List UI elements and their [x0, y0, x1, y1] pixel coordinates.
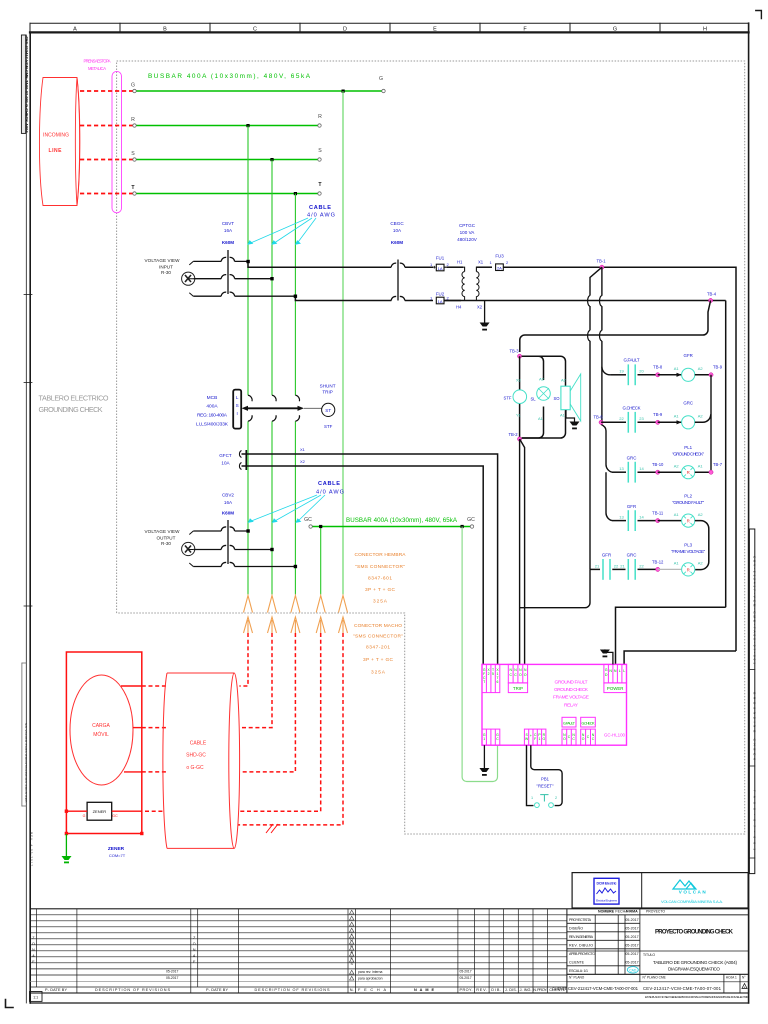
- wire TB-2 to relay trip B: [520, 439, 525, 664]
- svg-text:ESTE PLANO NO SE PUEDE REPRODU: ESTE PLANO NO SE PUEDE REPRODUCIR SIN AU…: [645, 995, 750, 999]
- hop marks rail drop: [600, 296, 602, 341]
- svg-text:G: G: [131, 83, 135, 89]
- svg-text:RELAY: RELAY: [564, 702, 579, 708]
- svg-text:VOLTAGE VIEW: VOLTAGE VIEW: [145, 529, 181, 534]
- svg-text:"SMS CONNECTOR": "SMS CONNECTOR": [355, 564, 405, 570]
- transformer CPTGC label: [457, 223, 478, 242]
- svg-text:PROYECTO GROUNDING CHECK: PROYECTO GROUNDING CHECK: [655, 930, 734, 936]
- svg-text:8347-601: 8347-601: [368, 576, 392, 582]
- svg-text:HOJA 1: HOJA 1: [726, 976, 737, 980]
- svg-text:13: 13: [619, 466, 624, 471]
- svg-text:CABLE: CABLE: [318, 481, 340, 487]
- svg-text:TABLERO DE GROUNDING CHECK (A0: TABLERO DE GROUNDING CHECK (A004): [653, 960, 737, 965]
- svg-text:16A: 16A: [224, 228, 233, 233]
- svg-text:A2: A2: [698, 512, 704, 517]
- svg-text:PL1: PL1: [684, 445, 692, 450]
- label PRENSAESTOPA METALICA: [84, 59, 111, 72]
- svg-text:APRB. PROYECTO: APRB. PROYECTO: [569, 952, 595, 956]
- bottom reset terminal group: [524, 729, 546, 745]
- incoming line cylinder: [39, 78, 79, 206]
- svg-text:05-2017: 05-2017: [460, 976, 472, 980]
- svg-text:L: L: [236, 395, 239, 400]
- svg-text:ZENER: ZENER: [93, 809, 107, 814]
- svg-text:D: D: [343, 27, 347, 33]
- svg-text:05-2017: 05-2017: [625, 961, 638, 965]
- svg-text:CONECTOR MACHO: CONECTOR MACHO: [354, 623, 402, 629]
- revision table: [30, 909, 748, 993]
- svg-text:GC: GC: [467, 517, 475, 523]
- TB-9 terminal right: [709, 373, 713, 377]
- svg-text:4/0 AWG: 4/0 AWG: [307, 213, 335, 219]
- rung3 GRC contact: [612, 456, 656, 483]
- MCB LSI trip unit: [233, 390, 241, 429]
- POWER terminal group: [604, 664, 627, 692]
- svg-text:H: H: [703, 27, 707, 33]
- svg-text:A2: A2: [698, 414, 704, 419]
- title block dates: [625, 918, 638, 965]
- left lower bracket with vertical text: [22, 663, 34, 866]
- wire TB-4 drop right: [725, 301, 727, 608]
- SL coil wire loop: [522, 356, 544, 438]
- svg-text:GROUNDING CHECK: GROUNDING CHECK: [39, 405, 103, 414]
- svg-text:O: O: [519, 673, 522, 677]
- TB-10 terminal: [656, 470, 660, 474]
- svg-text:GROUND FAULT: GROUND FAULT: [555, 680, 588, 686]
- svg-text:MCB: MCB: [207, 395, 218, 401]
- svg-text:CEV-212417-VCM-CME-TA00-07-001: CEV-212417-VCM-CME-TA00-07-001: [643, 986, 722, 991]
- zone letters: [73, 27, 707, 33]
- svg-text:L: L: [623, 669, 625, 673]
- svg-text:GC: GC: [304, 517, 312, 523]
- svg-text:GFR: GFR: [627, 504, 636, 509]
- CBGC 2P breaker: [391, 260, 405, 301]
- svg-text:22: 22: [639, 564, 644, 569]
- GFCT wire X1: [242, 454, 498, 664]
- svg-text:A1: A1: [698, 464, 704, 469]
- svg-text:05-2017: 05-2017: [625, 952, 638, 956]
- svg-text:GRC: GRC: [627, 553, 637, 558]
- TB-12 terminal: [656, 567, 660, 571]
- svg-text:O: O: [563, 737, 566, 741]
- svg-text:B: B: [163, 27, 167, 33]
- pilot light PL1 GROUND CHECK: [658, 445, 711, 479]
- svg-text:A1: A1: [674, 512, 680, 517]
- voltage view output meter: [182, 542, 195, 555]
- svg-text:TB-3: TB-3: [509, 349, 519, 354]
- svg-text:A1: A1: [674, 561, 680, 566]
- green ground at carga: [62, 834, 72, 863]
- svg-text:GROUNDING CHECK: GROUNDING CHECK: [752, 692, 756, 760]
- svg-text:05-2017: 05-2017: [166, 976, 179, 980]
- svg-text:16A: 16A: [224, 500, 233, 505]
- carga movil enclosure: [66, 652, 141, 834]
- svg-text:R: R: [318, 114, 322, 120]
- top-right corner crop mark: [756, 11, 762, 19]
- svg-text:para aprobacion: para aprobacion: [358, 977, 383, 981]
- TB-1 terminal: [596, 259, 606, 270]
- svg-text:8347-201: 8347-201: [366, 645, 390, 651]
- svg-text:REV. DIBUJO: REV. DIBUJO: [569, 944, 593, 948]
- red dashed drop T: [240, 633, 296, 772]
- zener box: [83, 802, 118, 820]
- label CARGA MOVIL: [92, 723, 110, 738]
- CBV2 breaker label: [222, 493, 235, 516]
- svg-text:23: 23: [639, 416, 644, 421]
- svg-text:G: G: [605, 668, 608, 672]
- svg-text:SL: SL: [530, 397, 536, 402]
- top-left terminal group: [482, 664, 500, 692]
- left vertical text strip: [21, 35, 28, 133]
- rung5 wire from rung5 junction: [590, 568, 600, 570]
- vertical feeder G: [342, 91, 344, 595]
- title block header: [598, 910, 638, 914]
- svg-text:P- DATE BY: P- DATE BY: [206, 988, 228, 992]
- svg-text:DESCRIPTION OF REVISIONS: DESCRIPTION OF REVISIONS: [255, 988, 330, 992]
- svg-text:Electrical Engineers: Electrical Engineers: [596, 899, 618, 903]
- svg-text:05-2017: 05-2017: [625, 918, 638, 922]
- TB-3 terminal: [518, 354, 522, 358]
- svg-text:K60M: K60M: [222, 240, 234, 245]
- svg-text:STF: STF: [324, 424, 333, 429]
- svg-text:05-2017: 05-2017: [625, 944, 638, 948]
- voltage view input meter label: [145, 258, 181, 275]
- label INCOMING LINE: [43, 133, 69, 155]
- left border ticks: [24, 295, 32, 607]
- svg-text:21: 21: [620, 564, 625, 569]
- wire X2 secondary to TB-4: [444, 300, 726, 302]
- fuse FU3: [490, 254, 510, 271]
- svg-text:A1: A1: [538, 416, 544, 421]
- svg-text:FRAME VOLTAGE: FRAME VOLTAGE: [553, 695, 589, 701]
- load phase stubs: [121, 686, 142, 772]
- svg-text:GRC: GRC: [683, 401, 693, 406]
- TB-4 terminal: [707, 292, 717, 303]
- logo row box: [572, 873, 748, 908]
- revision zone letters col1: [32, 936, 35, 964]
- svg-text:o G-GC: o G-GC: [186, 765, 204, 771]
- wire CBGC to FU2: [405, 300, 433, 302]
- ground at X2: [480, 301, 490, 331]
- svg-text:H4: H4: [456, 305, 462, 310]
- relay enclosure GC-HL100: [482, 664, 627, 745]
- svg-text:TB-10: TB-10: [652, 462, 664, 467]
- wire right drop to relay POWER L: [624, 651, 736, 664]
- svg-text:3P + T + GC: 3P + T + GC: [365, 587, 396, 593]
- TB-2 terminal: [518, 437, 522, 441]
- incoming red dashed feeders: [80, 91, 133, 194]
- svg-text:400A: 400A: [206, 404, 218, 410]
- svg-text:K60M: K60M: [222, 511, 234, 516]
- CBV2 3P breaker: [188, 520, 295, 567]
- svg-text:TABLERO ELECTRICO: TABLERO ELECTRICO: [39, 394, 109, 403]
- svg-text:OUTPUT: OUTPUT: [157, 536, 176, 541]
- rung5 GFR contact: [595, 553, 626, 580]
- svg-text:ESCALA: 1/1: ESCALA: 1/1: [569, 969, 588, 973]
- voltage view input meter: [182, 272, 195, 285]
- svg-text:para rev. interna: para rev. interna: [358, 970, 383, 974]
- svg-text:LI,LS/400/J33K: LI,LS/400/J33K: [196, 422, 229, 428]
- svg-text:INCOMING: INCOMING: [43, 133, 69, 139]
- svg-text:NO VALIDO PARA CONSTRUCCION SO: NO VALIDO PARA CONSTRUCCION SOLO REF.: [24, 723, 28, 803]
- red dashed drop GC to zener: [239, 633, 321, 811]
- svg-text:20: 20: [639, 369, 644, 374]
- shunt trip ST: [320, 384, 336, 430]
- svg-text:CLIENTE: CLIENTE: [569, 961, 585, 965]
- svg-text:PROYECTISTA: PROYECTISTA: [569, 918, 592, 922]
- svg-text:PRENSAESTOPA: PRENSAESTOPA: [84, 59, 111, 64]
- svg-text:CEV-212417-VCM-CME-TA00-07-001: CEV-212417-VCM-CME-TA00-07-001: [568, 986, 639, 991]
- GFCT label: [219, 453, 232, 466]
- svg-text:1: 1: [539, 737, 541, 741]
- svg-text:COM=7T: COM=7T: [109, 853, 126, 858]
- svg-text:G: G: [83, 814, 86, 818]
- CBV2 junction dots: [246, 529, 249, 532]
- svg-text:S: S: [318, 148, 322, 154]
- wire R phase to CBGC: [248, 261, 391, 267]
- zener wires: [66, 810, 87, 812]
- hop marks left drop: [588, 296, 590, 341]
- svg-text:X1: X1: [300, 447, 306, 452]
- svg-text:PL3: PL3: [684, 543, 692, 548]
- wire TB-1 left drop to rung5: [590, 267, 602, 569]
- svg-text:TB-4: TB-4: [707, 292, 717, 297]
- busbar S: [131, 148, 322, 161]
- svg-text:GC-HL100: GC-HL100: [604, 733, 626, 738]
- svg-text:SHD-GC: SHD-GC: [186, 753, 206, 759]
- rung2 G.CHECK contact: [601, 406, 655, 433]
- svg-text:FU2: FU2: [436, 292, 445, 297]
- svg-text:"FRAME VOLTAGE": "FRAME VOLTAGE": [671, 549, 705, 554]
- svg-text:G.FAULT: G.FAULT: [624, 358, 640, 363]
- svg-text:CABLE: CABLE: [309, 205, 331, 211]
- svg-text:DCM Electric: DCM Electric: [597, 882, 617, 886]
- busbar G: [131, 76, 385, 93]
- GFCT pin labels: [300, 447, 306, 464]
- junction R phase: [246, 260, 249, 263]
- svg-text:O: O: [524, 673, 527, 677]
- wire T phase to CBGC: [295, 296, 391, 300]
- svg-text:TB-6: TB-6: [593, 414, 603, 419]
- svg-text:21: 21: [595, 564, 600, 569]
- svg-text:STF: STF: [504, 396, 512, 401]
- green GC conductor to relay ground: [462, 527, 497, 782]
- svg-text:19: 19: [619, 369, 624, 374]
- svg-text:13: 13: [619, 515, 624, 520]
- svg-text:22: 22: [619, 416, 624, 421]
- svg-text:R-30: R-30: [161, 541, 171, 546]
- svg-text:14: 14: [639, 466, 644, 471]
- svg-text:PL2: PL2: [684, 494, 692, 499]
- label: TABLERO ELECTRICO GROUNDING CHECK: [39, 394, 109, 415]
- svg-text:K60M: K60M: [391, 240, 403, 245]
- svg-text:X2: X2: [300, 459, 306, 464]
- MCB label: [196, 395, 229, 428]
- vertical feeder S: [271, 160, 273, 595]
- pilot light PL3 FRAME VOLTAGE: [658, 543, 706, 577]
- voltage view output label: [145, 529, 181, 546]
- svg-text:CBVT: CBVT: [222, 221, 234, 226]
- svg-text:100 VA: 100 VA: [460, 230, 476, 235]
- revision zone letters col3: [350, 932, 353, 966]
- red dashed drop G frame: [238, 633, 343, 825]
- svg-text:10A: 10A: [393, 228, 402, 233]
- svg-text:2: 2: [555, 796, 557, 800]
- svg-text:N° PLANO CME: N° PLANO CME: [643, 976, 666, 980]
- svg-text:X2: X2: [516, 378, 522, 383]
- svg-text:VOLCAN: VOLCAN: [679, 890, 707, 895]
- CBGC breaker label: [390, 221, 404, 245]
- svg-text:10A: 10A: [221, 461, 230, 466]
- svg-text:G.CHECK: G.CHECK: [582, 722, 596, 726]
- svg-text:NOMBRE: NOMBRE: [598, 910, 615, 914]
- svg-text:1A: 1A: [438, 299, 443, 304]
- svg-text:CARGA: CARGA: [92, 723, 110, 729]
- SO sounder wire loop: [522, 356, 566, 438]
- svg-text:N: N: [32, 948, 35, 952]
- junction S phase: [270, 277, 273, 280]
- svg-text:GC: GC: [112, 814, 118, 818]
- top zone band: [30, 23, 749, 32]
- svg-text:480/120V: 480/120V: [457, 237, 478, 242]
- svg-text:CLIENTE: CLIENTE: [552, 987, 568, 991]
- svg-text:TB-9: TB-9: [653, 412, 663, 417]
- right edge vertical strip: [749, 529, 756, 874]
- svg-text:Y1: Y1: [516, 413, 522, 418]
- wire relay to PB1 pin2: [531, 745, 562, 805]
- TB-8 terminal: [656, 373, 660, 377]
- svg-text:2: 2: [488, 672, 490, 676]
- svg-text:N: N: [193, 948, 196, 952]
- wire relay to PB1 pin1: [527, 745, 534, 805]
- ground below relay G1: [479, 745, 489, 776]
- svg-text:G: G: [542, 737, 545, 741]
- svg-text:A1: A1: [674, 414, 680, 419]
- SL coil: [530, 377, 550, 422]
- svg-text:N. PROY.: N. PROY.: [533, 988, 547, 992]
- svg-text:O: O: [582, 737, 585, 741]
- TB-9 terminal mid: [656, 420, 660, 424]
- red dashed drop S: [240, 633, 272, 728]
- svg-text:REV. A 05-2017: REV. A 05-2017: [29, 832, 33, 866]
- G.CHECK aux contact group: [581, 717, 596, 745]
- svg-text:A2: A2: [698, 561, 704, 566]
- CAD mark: [627, 967, 638, 973]
- svg-text:GROUND CHECK: GROUND CHECK: [554, 687, 589, 693]
- svg-text:J. ING.: J. ING.: [520, 988, 532, 992]
- G.FAULT aux contact group: [562, 717, 576, 745]
- male connector arrows: [244, 617, 348, 633]
- title block rows: [569, 918, 595, 973]
- svg-text:SHUNT: SHUNT: [320, 384, 336, 389]
- svg-text:TB-2: TB-2: [508, 432, 518, 437]
- svg-text:CBV2: CBV2: [222, 493, 234, 498]
- svg-text:+: +: [530, 734, 532, 738]
- svg-text:TB-11: TB-11: [652, 511, 664, 516]
- ST coil: [504, 378, 527, 418]
- bottom-left terminal group: [482, 729, 500, 745]
- svg-text:D: D: [605, 673, 608, 677]
- svg-text:E: E: [433, 27, 437, 33]
- svg-text:POWER: POWER: [607, 686, 624, 691]
- svg-text:VOLTAGE VIEW: VOLTAGE VIEW: [145, 258, 181, 263]
- rung5 GRC contact: [620, 553, 655, 580]
- svg-text:C: C: [253, 27, 257, 33]
- svg-text:FU3: FU3: [495, 254, 504, 259]
- svg-text:2A: 2A: [497, 266, 502, 271]
- GFCT wire X2: [242, 466, 484, 664]
- svg-text:PROY.: PROY.: [460, 988, 473, 992]
- wire TB-3 down through ST to TB-2: [519, 356, 521, 439]
- svg-text:DESCRIPTION OF REVISIONS: DESCRIPTION OF REVISIONS: [95, 988, 170, 992]
- cable break mark: [266, 824, 278, 833]
- svg-text:05-2017: 05-2017: [166, 970, 179, 974]
- svg-text:4/0 AWG: 4/0 AWG: [316, 490, 344, 496]
- TB-11 terminal: [656, 519, 660, 523]
- svg-text:G: G: [613, 27, 617, 33]
- svg-text:ST: ST: [325, 408, 331, 413]
- svg-text:VOLCAN COMPAÑIA MINERA S.A.A.: VOLCAN COMPAÑIA MINERA S.A.A.: [661, 899, 723, 904]
- svg-text:L: L: [619, 669, 621, 673]
- wire TB-2 to relay trip A: [519, 439, 521, 664]
- title block grid: [567, 909, 749, 993]
- svg-text:N: N: [609, 669, 612, 673]
- svg-text:R: R: [131, 117, 135, 123]
- svg-text:A2: A2: [539, 377, 545, 382]
- svg-text:A2: A2: [698, 366, 704, 371]
- svg-text:O: O: [32, 942, 35, 946]
- fuse FU1: [430, 256, 450, 272]
- svg-text:TB-12: TB-12: [652, 560, 664, 565]
- svg-text:PROYECTO: PROYECTO: [646, 910, 665, 914]
- svg-text:14: 14: [639, 515, 644, 520]
- wire CBGC to FU1: [405, 266, 433, 268]
- revision table verticals: [37, 909, 567, 993]
- GFCT CT symbol: [239, 450, 246, 470]
- svg-text:G: G: [379, 76, 383, 82]
- busbar T: [131, 182, 322, 195]
- svg-text:ZENER: ZENER: [108, 846, 125, 852]
- svg-text:GRC: GRC: [627, 456, 637, 461]
- vertical feeder R: [247, 126, 249, 595]
- svg-text:DIB.: DIB.: [491, 988, 501, 992]
- svg-text:DIAGRAMA ESQUEMATICO: DIAGRAMA ESQUEMATICO: [668, 967, 720, 972]
- CBVT breaker label: [222, 221, 234, 245]
- wire FU1 to H1: [447, 266, 463, 268]
- rung1 G.FAULT contact: [611, 358, 656, 386]
- svg-text:325A: 325A: [373, 599, 388, 605]
- svg-text:FU1: FU1: [436, 256, 445, 261]
- label CABLE SHD-GC: [186, 741, 207, 772]
- svg-text:H1: H1: [457, 260, 463, 265]
- red dashed drop R: [239, 633, 248, 686]
- svg-text:R: R: [687, 519, 690, 524]
- busbar GC: [312, 526, 470, 528]
- svg-text:CAD: CAD: [629, 968, 637, 972]
- vertical feeder T: [294, 194, 296, 595]
- transformer CPTGC: [447, 267, 492, 300]
- MCB trip bar: [242, 406, 322, 411]
- svg-text:05-2017: 05-2017: [625, 927, 638, 931]
- revision triangles: [350, 910, 354, 980]
- svg-text:TB-8: TB-8: [653, 365, 663, 370]
- svg-text:R-30: R-30: [161, 270, 171, 275]
- svg-text:"SMS CONNECTOR": "SMS CONNECTOR": [353, 634, 403, 640]
- svg-text:05-2017: 05-2017: [460, 970, 472, 974]
- svg-text:F: F: [534, 737, 536, 741]
- fuse FU2: [430, 292, 461, 305]
- svg-text:S: S: [236, 403, 239, 408]
- center label: [553, 680, 589, 709]
